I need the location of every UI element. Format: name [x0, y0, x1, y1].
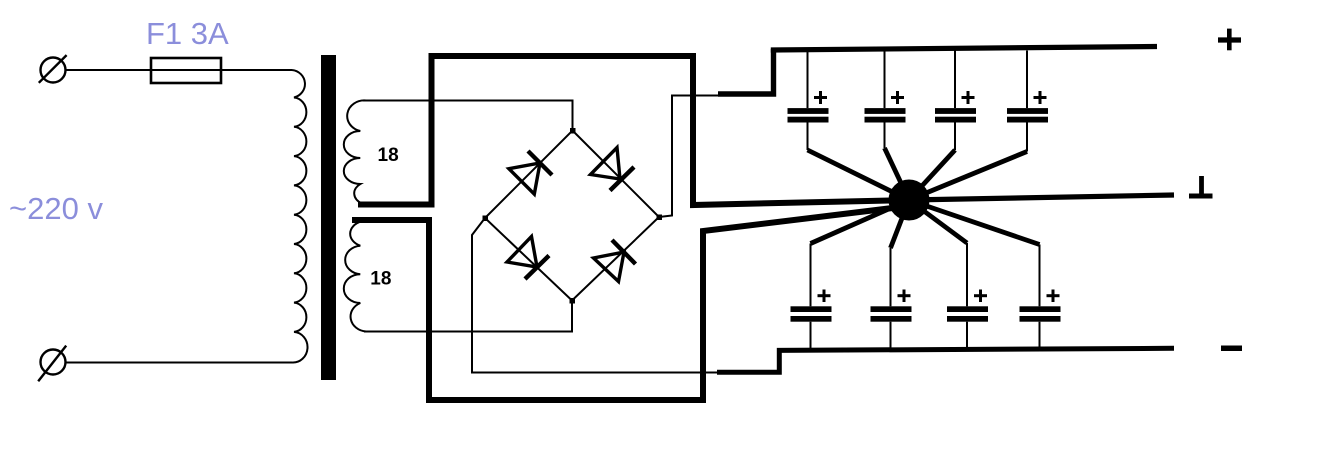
diode D4 lower-right [594, 240, 636, 282]
node dot bottom vertex [570, 298, 576, 304]
center tap thick wire lower loop [352, 206, 909, 400]
wire bottom terminal to primary [65, 362, 292, 364]
star ray to C4 [909, 152, 1027, 201]
wire secondary2 bottom to bridge bottom [364, 301, 572, 332]
wire top terminal to primary [65, 69, 292, 71]
svg-text:18: 18 [370, 268, 391, 289]
capacitor C6 [871, 248, 912, 351]
capacitor C4 [1007, 51, 1048, 152]
wire secondary1 top to bridge top [363, 101, 573, 131]
star ray to C3 [909, 150, 955, 200]
star node [889, 180, 930, 221]
capacitor C5 [791, 244, 832, 352]
diode D2 upper-right [591, 148, 635, 191]
svg-text:F1 3A: F1 3A [146, 16, 229, 51]
terminal input top [41, 58, 66, 83]
plus rail thick riser [718, 49, 774, 94]
center tap thick wire upper loop [358, 56, 909, 205]
capacitor C1 [788, 51, 829, 151]
transformer primary winding [292, 70, 308, 363]
plus bus top [771, 47, 1157, 51]
capacitor C8 [1020, 245, 1061, 352]
star ray to C6 [891, 200, 910, 248]
star ray to C1 [808, 150, 910, 200]
node dot right vertex [657, 215, 663, 221]
fuse F1 [151, 58, 221, 83]
diode D1 upper-left [509, 151, 552, 194]
capacitor C7 [947, 243, 988, 351]
node dot top vertex [570, 128, 576, 134]
star ray to C5 [811, 200, 910, 244]
minus bus bottom [717, 348, 1174, 372]
svg-text:18: 18 [378, 145, 399, 166]
star ray to C7 [909, 200, 967, 243]
ground line to terminal [909, 195, 1174, 200]
bridge diamond [485, 131, 659, 301]
terminal plus [1218, 29, 1241, 51]
wire bridge minus thin [472, 218, 718, 373]
terminal minus [1221, 346, 1242, 352]
capacitor C3 [935, 51, 976, 151]
transformer secondary winding 2 [344, 222, 366, 332]
star ray to C8 [909, 200, 1040, 245]
diode D3 lower-left [507, 237, 549, 280]
wire bridge plus thin [659, 96, 718, 218]
terminal ground [1189, 176, 1213, 196]
terminal input bottom [41, 350, 66, 375]
star ray to C2 [885, 148, 910, 200]
capacitor C2 [865, 51, 906, 149]
transformer secondary winding 1 [344, 100, 366, 203]
svg-text:~220 v: ~220 v [9, 191, 103, 226]
node dot left vertex [483, 216, 489, 222]
transformer core [321, 55, 336, 380]
